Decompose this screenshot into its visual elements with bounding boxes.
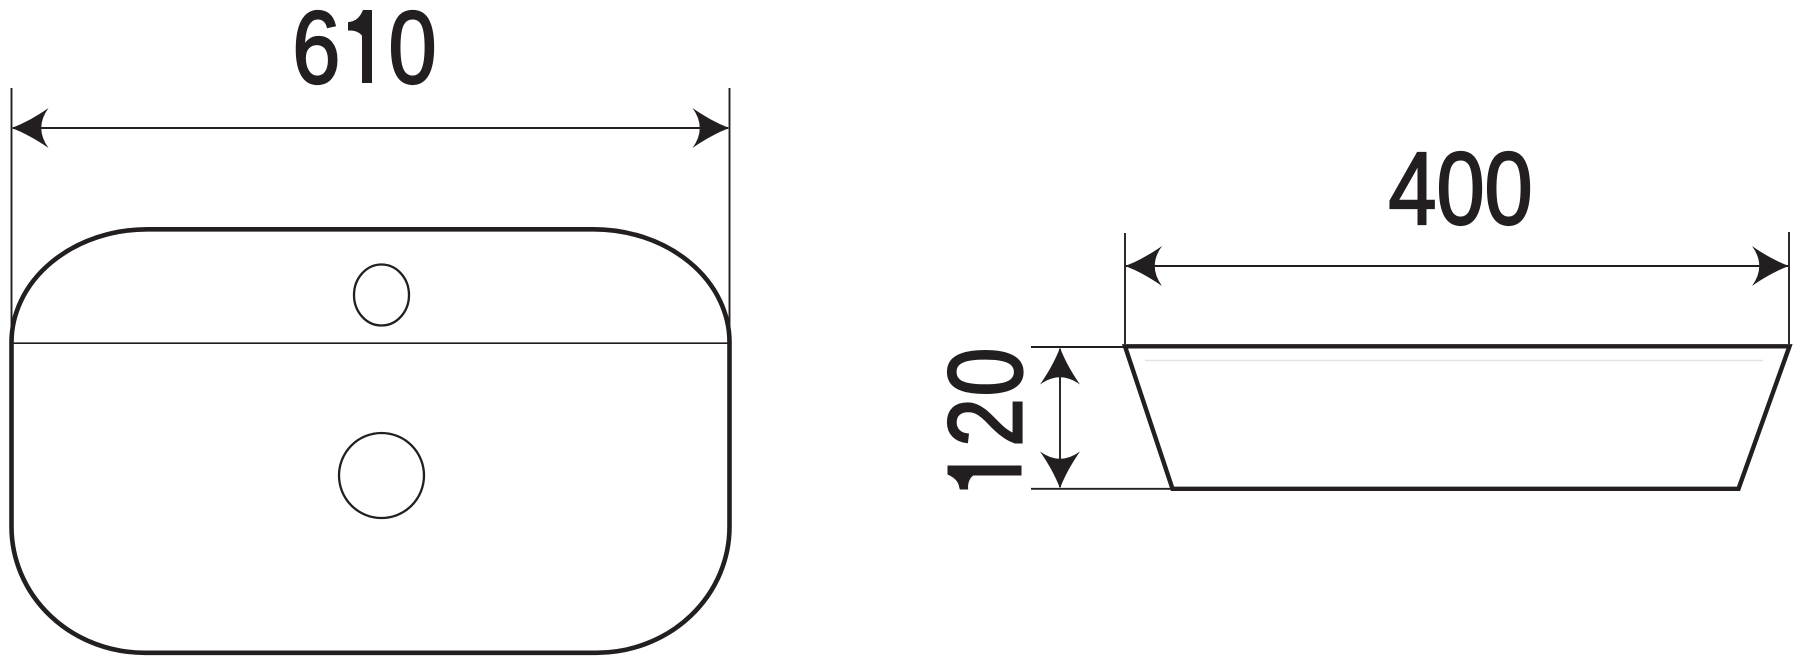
dim 610: right arrowhead [693,108,730,148]
left view: drain hole [339,433,424,518]
left view: rim line across basin [12,342,730,344]
dim 400: left extension line [1124,233,1126,344]
dim 120: label (rotated) [926,347,1044,489]
dim 400: right arrowhead [1752,246,1789,286]
right view: faint inner rim line [1145,360,1763,362]
left view: faucet hole [354,265,409,326]
svg-text:6: 6 [292,0,340,106]
svg-text:0: 0 [926,347,1044,396]
left view: basin outline (top view) [12,229,730,653]
dim 400: left arrowhead [1125,246,1162,286]
dim 610: left extension line [11,88,13,345]
dim 120: bottom arrowhead [1040,452,1080,489]
dim 120: bottom extension line [1031,488,1172,490]
dim 610: right extension line [729,88,731,345]
svg-text:2: 2 [926,398,1044,447]
dim 610: dimension line [13,127,728,129]
dim 400: dimension line [1126,265,1788,267]
right view: basin side profile (trapezoid) [1125,346,1790,489]
dim 120: dimension line [1059,349,1061,487]
dim 610: left arrowhead [12,108,49,148]
svg-text:0: 0 [389,0,437,106]
dim 400: right extension line [1788,232,1790,344]
dim 610: label [292,0,436,106]
dim 120: top extension line [1031,346,1125,348]
svg-text:400: 400 [1388,132,1532,247]
dim 120: top arrowhead [1040,348,1080,385]
